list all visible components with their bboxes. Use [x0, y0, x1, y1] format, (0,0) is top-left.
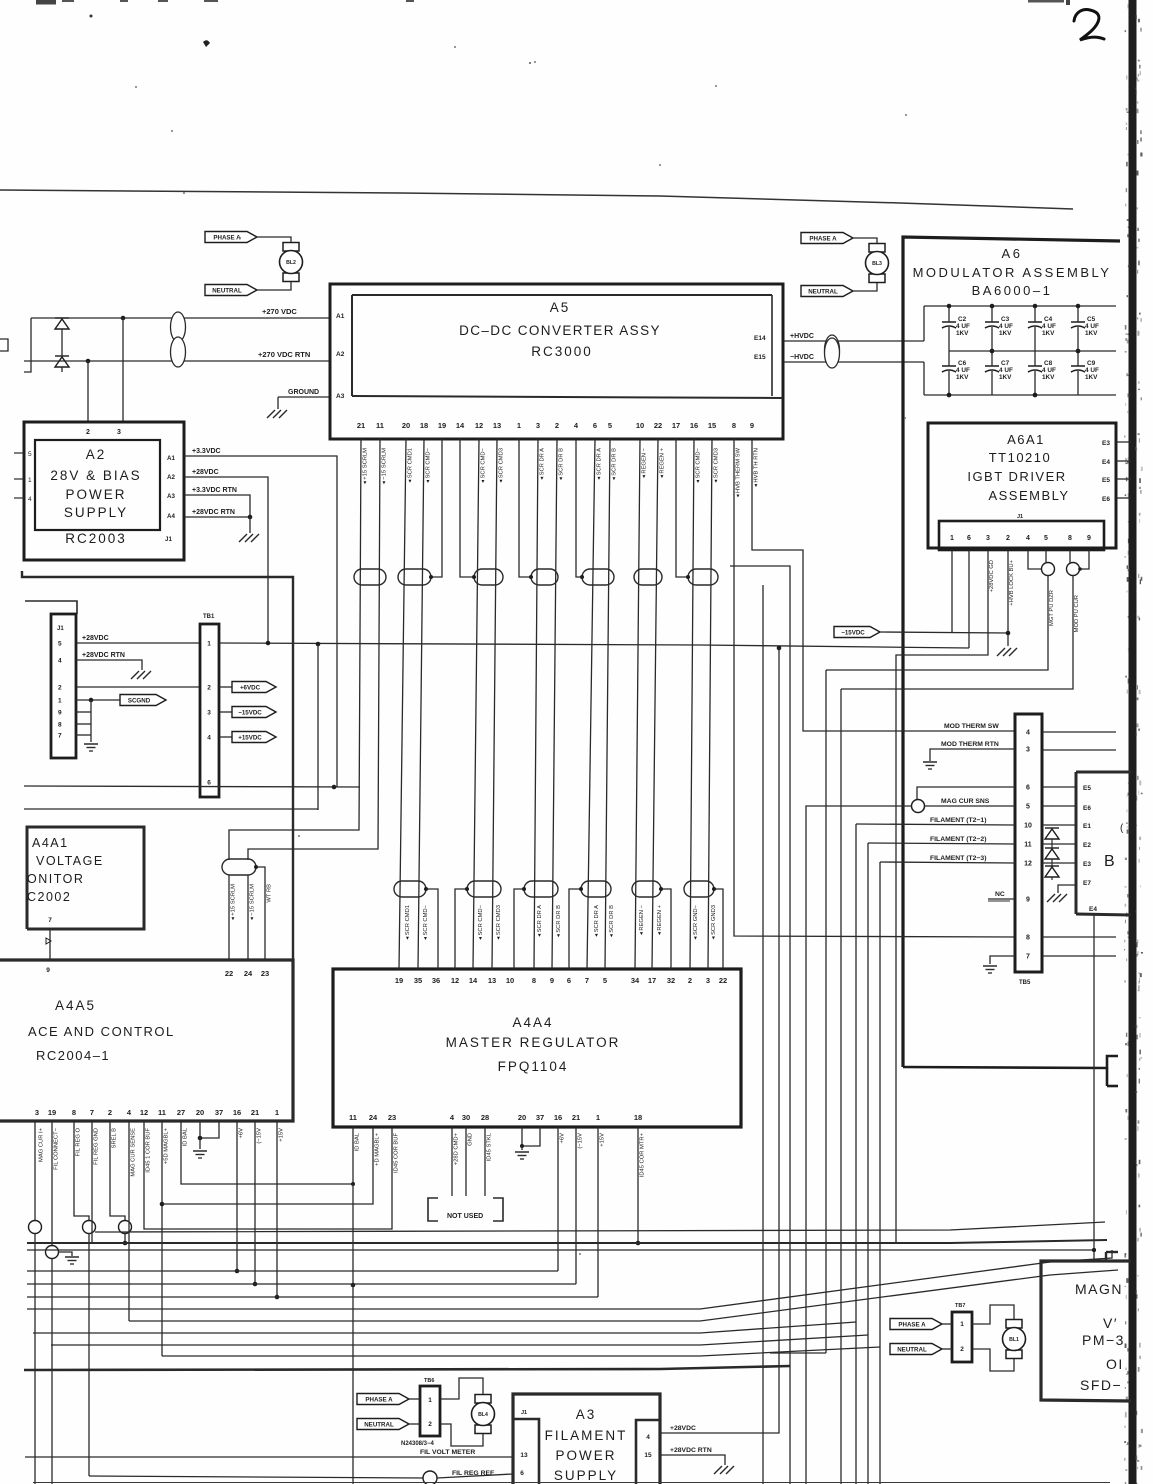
wire: [418, 439, 424, 969]
svg-text:4 UF: 4 UF: [999, 323, 1013, 330]
svg-text:A3: A3: [336, 393, 345, 400]
stub E3: [1116, 441, 1131, 443]
svg-text:4 UF: 4 UF: [999, 367, 1013, 374]
svg-text:10: 10: [636, 421, 644, 430]
svg-text:E6: E6: [1102, 496, 1110, 503]
svg-text:1: 1: [596, 1113, 600, 1122]
svg-text:+28VDC RTN: +28VDC RTN: [82, 652, 125, 659]
svg-text:1KV: 1KV: [1085, 330, 1098, 337]
twisted pair: [398, 569, 431, 585]
svg-text:◂ SCR CMD3: ◂ SCR CMD3: [499, 448, 505, 483]
svg-text:J1: J1: [57, 626, 64, 632]
wire shield stub to A4A4-36: [426, 889, 438, 969]
svg-text:2: 2: [555, 421, 559, 430]
svg-text:BL4: BL4: [478, 1412, 488, 1418]
svg-text:1: 1: [28, 477, 32, 484]
svg-text:34: 34: [631, 976, 640, 985]
sheet top border line: [0, 190, 1073, 209]
node C4 top: [1033, 304, 1038, 309]
wire J1-2 to TB1-2: [76, 686, 200, 688]
capacitor C4: [1034, 306, 1036, 322]
wire J1-7: [76, 734, 91, 736]
wire A4A5-8 with shield circle: [74, 1121, 89, 1221]
node: [248, 515, 253, 520]
wire J1-4 to shield circle: [1028, 550, 1042, 569]
wire A4A5-11 to A4A4-24: [162, 1127, 373, 1204]
svg-text:4: 4: [646, 1434, 650, 1441]
svg-text:1: 1: [950, 535, 954, 542]
ground (E7): [1047, 894, 1055, 902]
wire TB5-6 to E5: [1042, 786, 1076, 788]
connector J1 (A6A1): [939, 521, 1104, 550]
svg-text:12: 12: [475, 421, 483, 430]
wire branch down: [317, 809, 319, 810]
svg-text:ACE AND CONTROL: ACE AND CONTROL: [28, 1024, 175, 1039]
twisted pair: [581, 881, 611, 897]
svg-text:+HVB LOCK BU+: +HVB LOCK BU+: [1009, 559, 1015, 605]
svg-text:◂ SCR CMD−: ◂ SCR CMD−: [478, 904, 484, 940]
svg-text:MAG CUR SENSE: MAG CUR SENSE: [131, 1128, 137, 1177]
pin stubs A2 left: [14, 452, 24, 454]
wire E7 to ground: [1058, 885, 1076, 893]
svg-text:TB1: TB1: [203, 614, 215, 620]
wire A4A4-30 (not used): [465, 1127, 467, 1196]
svg-text:◂ SCR GND3: ◂ SCR GND3: [711, 905, 717, 939]
wire E4 to magnetron: [1093, 915, 1095, 1261]
svg-text:1KV: 1KV: [1085, 374, 1098, 381]
blower BL2: [283, 243, 299, 252]
svg-text:12: 12: [451, 976, 459, 985]
wire: [534, 439, 538, 969]
svg-text:BL3: BL3: [872, 261, 882, 267]
svg-text:+5D MAGBL+: +5D MAGBL+: [164, 1127, 170, 1164]
assembly magnetron MAGN / PM-3 / SFD (cut at page edge): [1041, 1261, 1131, 1401]
svg-text:E3: E3: [1083, 861, 1091, 868]
wire A4A4-16: [557, 1127, 559, 1271]
wire: [257, 282, 291, 290]
wire A4A5-16 (+6V rail): [236, 1121, 238, 1271]
wire: [492, 439, 497, 969]
wire TB1-6 rail: [24, 786, 360, 787]
svg-text:+270 VDC RTN: +270 VDC RTN: [258, 350, 310, 359]
svg-text:E6: E6: [1083, 805, 1091, 812]
svg-text:◂ HVB TH RTN: ◂ HVB TH RTN: [754, 448, 760, 487]
capacitor C8: [1034, 351, 1036, 366]
assembly A2 28V & BIAS POWER SUPPLY RC2003: [24, 422, 184, 560]
wire to A2 pin 2: [87, 361, 89, 421]
wire A4A5-27 to A4A4-11: [181, 1121, 353, 1184]
node: [1078, 567, 1082, 571]
twisted pair: [688, 569, 718, 585]
node: [636, 1241, 641, 1246]
svg-text:13: 13: [493, 421, 501, 430]
svg-text:12: 12: [140, 1108, 148, 1117]
svg-text:22: 22: [719, 976, 727, 985]
assembly A4A5 INTERFACE AND CONTROL RC2004-1 (cut at page edge): [0, 960, 293, 1121]
svg-text:+28VDC: +28VDC: [670, 1425, 696, 1432]
node C8: [1033, 393, 1038, 398]
svg-text:MGT PU DZR: MGT PU DZR: [1049, 590, 1055, 626]
svg-text:16: 16: [554, 1113, 562, 1122]
wire TB5-12 to E3: [1042, 862, 1076, 864]
wire: [942, 1323, 952, 1325]
wire -HVDC: [783, 361, 924, 363]
wire TB5-5 to E6: [1042, 805, 1076, 807]
svg-text:A6: A6: [1002, 246, 1023, 261]
wire bottom edge: [33, 1482, 1110, 1484]
wire to A4A5-22: [228, 875, 230, 960]
ground (A6A1 J1-2): [997, 648, 1005, 656]
svg-text:6: 6: [207, 780, 211, 787]
svg-text:1KV: 1KV: [1042, 374, 1055, 381]
twisted pair: [354, 569, 386, 585]
svg-text:5: 5: [58, 641, 62, 648]
svg-text:GND: GND: [468, 1133, 474, 1146]
wire shield stub to A4A4-12: [455, 889, 467, 969]
wire MOD THERM RTN: [930, 749, 1015, 761]
wire +270 VDC RTN: [24, 360, 331, 362]
svg-text:28: 28: [481, 1113, 489, 1122]
svg-text:8: 8: [1068, 535, 1072, 542]
twist symbol on 270V pair: [171, 312, 186, 342]
svg-text:+28VDC: +28VDC: [82, 635, 109, 642]
flag PHASE A (BL2): [205, 232, 257, 243]
wire A5-21 to A4A5 pair: [229, 439, 361, 860]
ground (A3 RTN): [714, 1466, 722, 1474]
svg-text:E2: E2: [1083, 842, 1091, 849]
svg-text:◂ SCR CMD−: ◂ SCR CMD−: [481, 447, 487, 483]
wire +HVDC: [783, 340, 924, 342]
svg-text:9: 9: [1087, 535, 1091, 542]
svg-text:◂ SCR DR A: ◂ SCR DR A: [594, 905, 600, 937]
twisted pair: [524, 881, 558, 897]
wire +3.3VDC from A2-A1: [184, 456, 337, 787]
blower BL3: [869, 244, 885, 253]
svg-text:15: 15: [644, 1452, 652, 1459]
wire TB6-1 to BL4: [440, 1378, 483, 1399]
wire to A4A5-24: [247, 875, 249, 960]
svg-text:NOT USED: NOT USED: [447, 1213, 483, 1220]
capacitor top bus: [924, 305, 1116, 307]
svg-text:A1: A1: [167, 455, 175, 462]
svg-text:37: 37: [215, 1108, 223, 1117]
wire: [409, 1398, 420, 1400]
node C9: [1076, 349, 1081, 354]
svg-text:3: 3: [706, 976, 710, 985]
svg-text:FILAMENT (T2−3): FILAMENT (T2−3): [930, 855, 986, 862]
wire +28VDC RTN: [184, 516, 250, 518]
wire -15VDC to J1-1: [880, 632, 1008, 633]
connector right (A3): [636, 1420, 660, 1484]
svg-text:1KV: 1KV: [999, 374, 1012, 381]
svg-text:◂ +15 SCRLM: ◂ +15 SCRLM: [231, 884, 237, 920]
wire shield stub (A5-4): [576, 439, 582, 577]
svg-text:PHASE A: PHASE A: [213, 235, 241, 242]
svg-text:◂ SCR CMD3: ◂ SCR CMD3: [714, 448, 720, 483]
wire rail: [162, 1347, 880, 1356]
flag NEUTRAL (BL2): [205, 285, 257, 296]
svg-text:OI: OI: [1106, 1356, 1124, 1372]
svg-text:3: 3: [35, 1108, 39, 1117]
svg-text:E5: E5: [1083, 785, 1091, 792]
flag +15VDC: [232, 732, 276, 743]
ground (A4A4 20/37): [515, 1151, 529, 1153]
svg-text:1KV: 1KV: [956, 374, 969, 381]
svg-text:◂ SCR CMD3: ◂ SCR CMD3: [496, 905, 502, 940]
assembly A5 DC-DC CONVERTER ASSY RC3000: [330, 284, 783, 439]
flag PHASE A (BL3): [801, 233, 853, 244]
wire J1-2 to ground: [1007, 550, 1009, 646]
wire shield stub (A5-17): [676, 439, 688, 577]
svg-text:A4A1: A4A1: [32, 836, 69, 850]
svg-text:J1: J1: [521, 1410, 527, 1416]
A6 box bottom edge: [903, 1056, 1118, 1068]
svg-text:◂ −15 SCRLM: ◂ −15 SCRLM: [382, 448, 388, 484]
svg-text:C4: C4: [1044, 316, 1053, 323]
twist symbol on HVDC pair: [825, 335, 840, 365]
wire: [399, 439, 406, 969]
svg-text:ID45 STKL: ID45 STKL: [487, 1132, 493, 1161]
svg-text:A2: A2: [86, 447, 107, 462]
svg-text:(−15V: (−15V: [257, 1128, 263, 1144]
wire TB6-2 to BL4: [440, 1424, 483, 1446]
wire +6VDC: [219, 686, 232, 688]
svg-text:POWER: POWER: [65, 487, 126, 502]
wire A4A4-18: [637, 1127, 639, 1243]
svg-text:2: 2: [688, 976, 692, 985]
svg-text:J1: J1: [1017, 514, 1023, 520]
svg-text:8: 8: [532, 976, 536, 985]
svg-text:6: 6: [520, 1470, 524, 1477]
wire +15VDC: [219, 736, 232, 738]
ground (A2 returns): [239, 534, 247, 542]
svg-text:A6A1: A6A1: [1007, 432, 1045, 447]
blower BL1: [1006, 1320, 1022, 1329]
svg-text:2: 2: [960, 1346, 964, 1353]
svg-text:18: 18: [634, 1113, 642, 1122]
wire rail: [51, 1335, 868, 1345]
wire rail: [129, 1270, 1118, 1321]
svg-text:RC2003: RC2003: [65, 531, 127, 546]
svg-text:+15VDC: +15VDC: [238, 735, 262, 742]
wire +HVDC riser into cap bank: [923, 306, 925, 341]
wire branch: [730, 566, 790, 1484]
wire TB5-10 to E1: [1042, 824, 1076, 826]
stub E5: [1116, 478, 1131, 480]
twisted pair: [531, 569, 558, 585]
wire +15V rail: [27, 1296, 598, 1298]
svg-text:4 UF: 4 UF: [1085, 323, 1099, 330]
svg-text:+6VDC: +6VDC: [240, 685, 261, 692]
svg-text:RC3000: RC3000: [531, 344, 593, 359]
wire +270 VDC: [31, 317, 331, 319]
terminal board TB7: [952, 1312, 972, 1362]
assembly A3 FILAMENT POWER SUPPLY (cut at page bottom): [513, 1394, 660, 1484]
scan specks: [135, 86, 137, 88]
wire +28VDC RTN (A3): [660, 1455, 725, 1465]
wire J1-3: [896, 550, 988, 1243]
capacitor C7: [991, 351, 993, 366]
wire corner left: [24, 318, 31, 372]
wire: [635, 439, 640, 969]
svg-text:1KV: 1KV: [999, 330, 1012, 337]
svg-text:SUPPLY: SUPPLY: [64, 505, 128, 520]
svg-text:−15VDC: −15VDC: [238, 710, 262, 717]
svg-text:MOD THERM RTN: MOD THERM RTN: [941, 741, 999, 748]
wire A4A5-20/37 to ground: [200, 1121, 219, 1138]
wire drop from MOD PU CUR: [840, 689, 842, 1484]
flag -15VDC: [232, 707, 276, 718]
svg-text:32: 32: [667, 976, 675, 985]
svg-text:◂ SCR DR B: ◂ SCR DR B: [609, 905, 615, 937]
ground (J1 shield): [84, 743, 98, 745]
svg-text:2: 2: [108, 1108, 112, 1117]
svg-text:9: 9: [46, 967, 50, 974]
wire: [853, 283, 877, 291]
wire FIL REG REF rail: [89, 1476, 423, 1478]
wire FIL VOLT METER rail: [25, 1456, 513, 1458]
svg-text:+HVDC: +HVDC: [790, 333, 814, 340]
NOT USED bracket: [428, 1198, 438, 1221]
svg-text:FPQ1104: FPQ1104: [498, 1059, 569, 1074]
svg-text:MOD PU CUR: MOD PU CUR: [1074, 595, 1080, 632]
svg-text:BL1: BL1: [1009, 1337, 1019, 1343]
svg-text:+28VDC RTN: +28VDC RTN: [670, 1447, 712, 1454]
svg-text:C8: C8: [1044, 360, 1053, 367]
node: [1006, 631, 1011, 636]
node: [123, 1241, 128, 1246]
diode CR2: [55, 355, 69, 357]
ground (A4A5 20/37): [193, 1150, 207, 1152]
wire MGT PU DZR: [826, 575, 1048, 670]
svg-text:+3.3VDC RTN: +3.3VDC RTN: [192, 487, 237, 494]
wire +6V rail: [27, 1270, 558, 1272]
scan fragments top edge: [62, 0, 74, 2]
bus wire: [25, 601, 77, 614]
svg-text:22: 22: [654, 421, 662, 430]
node C5 top: [1076, 304, 1081, 309]
svg-text:8: 8: [72, 1108, 76, 1117]
wire J1-5: [1045, 550, 1047, 563]
svg-text:12: 12: [1024, 861, 1032, 868]
wire A4A5-19 with shield circle: [51, 1121, 53, 1246]
svg-text:7: 7: [48, 917, 52, 924]
svg-text:1KV: 1KV: [956, 330, 969, 337]
node C2 top: [947, 304, 952, 309]
svg-text:+28D CMD+: +28D CMD+: [454, 1132, 460, 1165]
wire J1-8: [1069, 550, 1071, 563]
wire A4A5-1 (+15V rail): [276, 1121, 278, 1297]
svg-text:4 UF: 4 UF: [956, 323, 970, 330]
capacitor mid bus: [949, 350, 1116, 352]
wire: [249, 517, 251, 533]
svg-text:GROUND: GROUND: [288, 389, 319, 396]
capacitor bottom bus: [924, 394, 1116, 396]
svg-text:36: 36: [432, 976, 440, 985]
connector J1 (interface): [51, 614, 76, 758]
wire TB5-8 right: [1042, 936, 1116, 938]
bus wire: [22, 571, 293, 960]
wire -HVDC drop to bottom bus: [923, 362, 925, 395]
svg-text:RC2004–1: RC2004–1: [36, 1048, 110, 1063]
twisted pair: [582, 569, 614, 585]
svg-text:21: 21: [572, 1113, 580, 1122]
svg-text:VOLTAGE: VOLTAGE: [36, 854, 104, 868]
node mid bus: [990, 349, 995, 354]
terminal board TB1: [200, 624, 219, 797]
node: [1092, 1248, 1096, 1252]
svg-text:FILAMENT (T2−2): FILAMENT (T2−2): [930, 836, 986, 843]
diode CR1: [55, 317, 69, 319]
svg-text:A2: A2: [167, 474, 175, 481]
wire shield circle ground: [58, 1252, 72, 1256]
svg-text:11: 11: [349, 1113, 357, 1122]
terminal board TB5: [1015, 714, 1042, 972]
svg-text:A3: A3: [167, 493, 175, 500]
wire A4A5-21 (-15V rail): [254, 1121, 256, 1284]
wire +28VDC RTN J1-4: [76, 660, 142, 670]
node C6: [947, 393, 952, 398]
capacitor C9: [1077, 351, 1079, 366]
wire FILAMENT T2-3: [879, 862, 881, 1484]
wire A4A5-12 to A4A4-23: [144, 1121, 392, 1229]
svg-text:24: 24: [369, 1113, 378, 1122]
svg-text:E14: E14: [754, 335, 766, 342]
svg-text:+270 VDC: +270 VDC: [262, 307, 297, 316]
svg-text:5: 5: [1044, 535, 1048, 542]
scanned page right edge strip: [1129, 0, 1137, 1484]
svg-text:1: 1: [960, 1321, 964, 1328]
svg-text:◂ SCR CMD−: ◂ SCR CMD−: [423, 904, 429, 940]
svg-text:+D MAGBL+: +D MAGBL+: [375, 1132, 381, 1165]
twisted pair: [634, 569, 662, 585]
svg-text:E5: E5: [1102, 477, 1110, 484]
ground (TB5-7): [983, 965, 997, 967]
svg-text:11: 11: [376, 421, 384, 430]
svg-text:TB5: TB5: [1019, 980, 1031, 986]
svg-text:ID BAL: ID BAL: [355, 1132, 361, 1151]
svg-text:15: 15: [708, 421, 716, 430]
wire: [708, 439, 712, 969]
ground (A5 A3): [267, 410, 275, 418]
svg-text:NEUTRAL: NEUTRAL: [897, 1347, 927, 1354]
svg-text:20: 20: [196, 1108, 204, 1117]
node: [235, 1269, 240, 1274]
wire TB7-1 to BL1: [972, 1305, 1014, 1324]
wire FILAMENT T2-2: [867, 843, 869, 1484]
wire: [605, 439, 610, 969]
svg-text:E7: E7: [1083, 880, 1091, 887]
svg-text:E15: E15: [754, 354, 766, 361]
svg-text:3: 3: [207, 710, 211, 717]
twisted pair: [394, 881, 426, 897]
blower BL4: [475, 1395, 491, 1404]
wire: [409, 1423, 420, 1425]
capacitor C2: [948, 306, 950, 322]
svg-text:−HVDC: −HVDC: [790, 354, 814, 361]
svg-text:4: 4: [1026, 535, 1030, 542]
svg-text:V′: V′: [1103, 1315, 1118, 1331]
wire drop from MGT PU DZR: [825, 670, 827, 1353]
svg-text:MASTER REGULATOR: MASTER REGULATOR: [446, 1035, 621, 1050]
svg-text:(−15V: (−15V: [578, 1133, 584, 1149]
svg-text:4 UF: 4 UF: [1042, 323, 1056, 330]
svg-text:7: 7: [90, 1108, 94, 1117]
svg-text:ID45 COR BUF: ID45 COR BUF: [394, 1133, 400, 1173]
svg-text:◂ REGEN +: ◂ REGEN +: [657, 904, 663, 935]
svg-text:+28VDC: +28VDC: [192, 469, 219, 476]
assembly A6A1 TT10210 IGBT DRIVER ASSEMBLY: [928, 423, 1116, 548]
